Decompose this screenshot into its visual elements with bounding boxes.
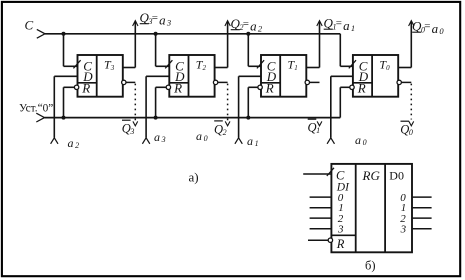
svg-text:R: R xyxy=(173,81,182,96)
svg-text:3: 3 xyxy=(166,18,171,28)
Qbar0 arrowhead xyxy=(409,121,414,125)
terminal chevron under T0 xyxy=(327,138,334,144)
T3 R input bubble xyxy=(74,85,78,89)
svg-text:C: C xyxy=(336,168,345,182)
Qbar2 arrowhead xyxy=(225,121,230,125)
svg-text:a: a xyxy=(343,18,350,33)
svg-text:0: 0 xyxy=(204,134,208,143)
svg-text:=: = xyxy=(424,21,430,33)
RG divider left xyxy=(355,164,357,252)
svg-text:3: 3 xyxy=(400,224,407,236)
svg-text:a: a xyxy=(154,130,160,144)
wire: Q output of T3 up to arrow xyxy=(123,67,136,69)
wire: R input of T1 from reset bus xyxy=(248,86,258,88)
wire: RG data output 1 xyxy=(412,207,432,209)
svg-text:3: 3 xyxy=(337,224,344,236)
svg-text:0: 0 xyxy=(363,138,367,147)
wire: Qbar0 stub xyxy=(401,81,411,83)
node label Q0=a0 xyxy=(412,19,444,37)
RG R-section divider xyxy=(331,234,355,236)
RG dynamic C input slash xyxy=(327,168,334,176)
svg-text:a: a xyxy=(432,21,439,36)
flip-flop T1 box xyxy=(261,55,306,97)
svg-text:=: = xyxy=(152,12,158,24)
wire: Qbar2 dotted line down xyxy=(227,84,229,121)
wire: Qbar1 stub xyxy=(310,81,320,83)
T1 inverted output bubble xyxy=(305,80,309,84)
svg-text:R: R xyxy=(265,81,274,96)
svg-text:a: a xyxy=(159,13,166,28)
T2 inverted output bubble xyxy=(213,80,217,84)
node label Qbar3 xyxy=(122,120,135,136)
wire: Qbar2 stub xyxy=(218,81,228,83)
svg-text:а): а) xyxy=(189,170,199,185)
clock input chevron xyxy=(37,29,45,38)
svg-text:=: = xyxy=(243,18,249,30)
junction on clock bus at x=63.5 xyxy=(62,32,66,36)
node label a0 (input of T0) xyxy=(355,133,367,147)
svg-text:2: 2 xyxy=(223,128,227,137)
T0 R input bubble xyxy=(350,85,354,89)
svg-text:1: 1 xyxy=(316,126,320,135)
wire: R input of T3 from reset bus xyxy=(64,86,75,88)
svg-text:1: 1 xyxy=(255,139,259,148)
wire: clock branch to T0 C input xyxy=(339,34,341,67)
svg-text:3: 3 xyxy=(129,127,134,136)
wire: RG C input stub xyxy=(303,173,331,175)
Qbar1 arrowhead xyxy=(317,121,322,125)
wire: RG data input 1 xyxy=(310,207,332,209)
svg-text:1: 1 xyxy=(351,23,355,33)
Q3 output arrowhead xyxy=(133,21,138,26)
svg-text:RG: RG xyxy=(362,168,381,183)
wire: Q output of T1 up to arrow xyxy=(306,67,319,69)
flip-flop T3 box xyxy=(78,55,123,97)
T0 inverted output bubble xyxy=(397,80,401,84)
wire: D input of T0 from terminal a xyxy=(331,75,353,77)
wire: Q output of T0 up to arrow xyxy=(398,67,411,69)
svg-text:a: a xyxy=(247,134,253,148)
RG R input bubble xyxy=(328,238,332,242)
svg-text:=: = xyxy=(336,18,342,30)
svg-text:R: R xyxy=(357,81,366,96)
svg-text:a: a xyxy=(68,136,74,150)
T2 dynamic C input slash xyxy=(165,60,172,68)
wire: reset bus corner up to R of T0 xyxy=(339,87,341,117)
wire: D input of T3 from terminal a xyxy=(54,75,77,77)
T0 R-section divider xyxy=(353,82,372,84)
wire: clock branch to T2 C input xyxy=(155,34,157,67)
wire: RG data output 2 xyxy=(412,217,432,219)
T2 inner divider xyxy=(188,55,190,97)
svg-text:a: a xyxy=(196,129,202,143)
node label Q3=a3 xyxy=(140,10,172,28)
wire: RG data input 0 xyxy=(310,196,332,198)
T2 R input bubble xyxy=(166,85,170,89)
T0 inner divider xyxy=(371,55,373,97)
T1 R-section divider xyxy=(261,82,280,84)
Q2 output arrowhead xyxy=(225,21,230,26)
wire: clock bus horizontal xyxy=(45,33,340,35)
node label Q2=a2 xyxy=(231,16,263,34)
wire: RG data output 3 xyxy=(412,228,432,230)
svg-text:2: 2 xyxy=(75,141,79,150)
wire: set-0 (reset) bus horizontal xyxy=(45,117,341,119)
wire: D input of T1 from terminal a xyxy=(239,75,261,77)
terminal chevron under T2 xyxy=(142,138,149,144)
svg-text:D0: D0 xyxy=(389,168,404,182)
T3 inverted output bubble xyxy=(122,80,126,84)
svg-text:R: R xyxy=(336,237,345,251)
T3 inner divider xyxy=(96,55,98,97)
svg-text:C: C xyxy=(25,18,34,33)
flip-flop T0 box xyxy=(353,55,398,97)
svg-text:R: R xyxy=(81,81,90,96)
terminal chevron under T1 xyxy=(235,138,242,144)
T1 R input bubble xyxy=(258,85,262,89)
node label a0 (mid label) xyxy=(196,129,208,143)
junction on reset bus at x=155.6 xyxy=(154,116,158,120)
register RG symbol outer box xyxy=(331,164,412,252)
junction on reset bus at x=248.3 xyxy=(246,116,250,120)
svg-text:3: 3 xyxy=(161,135,166,144)
junction on reset bus at x=63.5 xyxy=(62,116,66,120)
terminal chevron under T3 xyxy=(51,138,58,144)
node label Q1=a1 xyxy=(324,16,356,34)
wire: Qbar3 stub xyxy=(126,81,135,83)
wire: RG data output 0 xyxy=(412,196,432,198)
T1 dynamic C input slash xyxy=(257,60,264,68)
wire: R input of T2 from reset bus xyxy=(156,86,167,88)
flip-flop T2 box xyxy=(169,55,214,97)
wire: clock branch to T3 C input xyxy=(63,34,65,67)
Q0 output arrowhead xyxy=(409,21,414,26)
wire: Q output of T2 up to arrow xyxy=(215,67,228,69)
svg-text:a: a xyxy=(355,133,361,147)
svg-text:a: a xyxy=(250,19,257,34)
T2 R-section divider xyxy=(169,82,188,84)
node label Qbar1 xyxy=(308,119,321,135)
junction on clock bus at x=155.6 xyxy=(154,32,158,36)
wire: RG R input stub xyxy=(308,239,328,241)
T1 inner divider xyxy=(279,55,281,97)
Q1 output arrowhead xyxy=(317,21,322,26)
wire: clock branch to T1 C input xyxy=(247,34,249,67)
wire: D input of T2 from terminal a xyxy=(146,75,169,77)
junction on clock bus at x=248.3 xyxy=(246,32,250,36)
T0 dynamic C input slash xyxy=(349,60,356,68)
svg-text:2: 2 xyxy=(258,24,263,34)
T3 R-section divider xyxy=(78,82,97,84)
node label Qbar0 xyxy=(400,121,413,137)
wire: R input of T0 from reset bus xyxy=(340,86,350,88)
svg-text:Уст.“0”: Уст.“0” xyxy=(19,103,53,115)
T3 dynamic C input slash xyxy=(73,60,80,68)
Qbar3 arrowhead xyxy=(133,121,138,125)
set-0 input chevron xyxy=(36,113,44,122)
node label a1 (input of T1) xyxy=(247,134,259,148)
node label Qbar2 xyxy=(214,121,227,137)
RG divider right xyxy=(384,164,386,252)
node label a3 (input of T2) xyxy=(154,130,166,144)
svg-text:0: 0 xyxy=(439,26,444,36)
wire: RG data input 3 xyxy=(310,228,332,230)
node label a2 (input of T3) xyxy=(68,136,80,150)
wire: Qbar3 dotted line down xyxy=(134,84,136,121)
svg-text:0: 0 xyxy=(409,128,413,137)
svg-text:б): б) xyxy=(365,258,376,272)
wire: Qbar0 dotted line down xyxy=(410,84,412,120)
wire: RG data input 2 xyxy=(310,217,332,219)
